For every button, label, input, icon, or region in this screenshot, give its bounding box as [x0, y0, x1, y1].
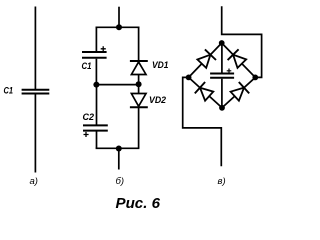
wire (fig b, left branch lower) — [96, 85, 98, 125]
node (fig b, bottom junction dot) — [116, 146, 122, 152]
node (fig b, left middle junction dot) — [93, 82, 99, 88]
capacitor (fig v) plates — [210, 73, 234, 75]
capacitor C2 (fig b) plates — [83, 124, 108, 126]
wire (fig b, bottom rail) — [96, 147, 140, 149]
wire (fig a, bottom lead) — [34, 95, 36, 173]
wire (fig v, top lead: down, right, down to right vertex) — [222, 6, 262, 77]
svg-text:VD2: VD2 — [149, 95, 167, 106]
svg-text:C2: C2 — [83, 112, 95, 123]
svg-text:б): б) — [116, 176, 125, 187]
wire (fig v, capacitor top lead) — [221, 43, 223, 73]
wire (fig b, top stub) — [118, 7, 120, 28]
capacitor C1 (fig a) plates — [22, 89, 50, 91]
diode VD2 cathode bar — [130, 106, 148, 108]
polarity + of capacitor (fig v) — [227, 69, 232, 74]
svg-text:в): в) — [218, 176, 226, 187]
node (fig b, right middle junction dot) — [136, 81, 142, 87]
wire (fig b, left branch bottom) — [96, 132, 98, 149]
wire (fig b, left branch middle) — [95, 59, 97, 85]
capacitor C1 (fig b) plates — [82, 51, 107, 53]
wire (fig b, right branch between diodes) — [138, 75, 140, 94]
diode (bridge bottom-left, anode at bottom node, cathode at left node) — [200, 88, 213, 101]
svg-text:Рис. 6: Рис. 6 — [116, 195, 161, 212]
wire (fig v, bottom lead: left, down, right, down) — [183, 77, 222, 166]
svg-text:C1: C1 — [82, 61, 92, 72]
diode VD2 triangle (pointing down) — [131, 94, 146, 107]
diode VD1 cathode bar — [130, 60, 148, 62]
node (fig v, left vertex dot) — [186, 75, 192, 81]
diode (bridge top-right, anode at right node, cathode at top node) — [233, 55, 246, 68]
svg-text:VD1: VD1 — [152, 60, 169, 71]
wire (fig b, left branch upper) — [95, 27, 97, 52]
wire (fig b, middle rail) — [96, 84, 138, 86]
svg-text:C1: C1 — [4, 86, 14, 97]
node (fig v, top vertex dot) — [219, 40, 225, 46]
node (fig b, top junction dot) — [116, 24, 122, 30]
wire (fig a, top lead) — [34, 7, 36, 90]
wire (fig b, bottom stub) — [118, 149, 120, 170]
wire (fig b, right branch upper) — [138, 27, 140, 62]
diode VD1 triangle (pointing up) — [131, 62, 146, 75]
diode (bridge top-left, anode at left node, cathode at top node) — [197, 55, 210, 68]
node (fig v, right vertex dot) — [252, 75, 258, 81]
polarity + of C2 (fig b) — [84, 132, 89, 137]
polarity + of C1 (fig b) — [101, 46, 106, 51]
svg-text:а): а) — [30, 176, 38, 187]
wire (bridge edge L-T) — [189, 43, 222, 77]
wire (fig v, capacitor bottom lead) — [221, 79, 223, 108]
node (fig v, bottom vertex dot) — [219, 105, 225, 111]
wire (bridge edge B-R) — [222, 77, 255, 107]
wire (bridge edge B-L) — [189, 77, 222, 107]
wire (fig b, top rail) — [96, 26, 140, 28]
diode (bridge bottom-right, anode at bottom node, cathode at right node) — [231, 88, 244, 101]
wire (bridge edge T-R) — [222, 43, 256, 77]
wire (fig b, right branch lower) — [138, 107, 140, 148]
